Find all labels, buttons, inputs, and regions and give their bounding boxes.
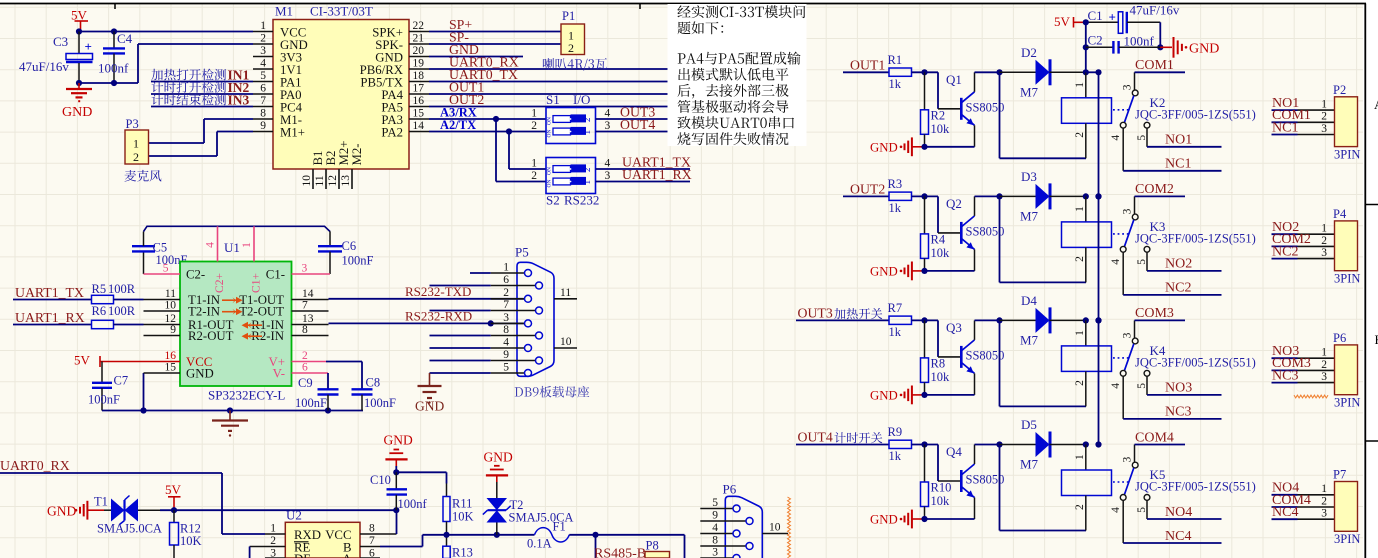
M1 pin 22 SPK+ [372, 20, 429, 40]
svg-text:11: 11 [560, 287, 571, 299]
svg-text:6: 6 [369, 547, 375, 558]
svg-text:1: 1 [531, 157, 537, 169]
svg-text:3: 3 [605, 120, 611, 132]
resistor R8 10k [921, 320, 951, 395]
svg-text:D2: D2 [1021, 45, 1037, 60]
ground earth (under U1) [212, 411, 248, 437]
svg-text:R9: R9 [888, 425, 903, 439]
wire relay coil return loop [1000, 72, 1087, 158]
svg-text:R2-OUT: R2-OUT [188, 329, 234, 343]
svg-text:3PIN: 3PIN [1334, 395, 1360, 409]
relay K5 switch [1110, 445, 1256, 513]
svg-text:C2: C2 [1088, 33, 1103, 48]
connector P1 speaker [561, 9, 585, 55]
M1 pin 21 SPK- [375, 32, 429, 52]
svg-text:2: 2 [1074, 256, 1086, 262]
svg-text:4: 4 [1110, 259, 1122, 265]
connector P8 [645, 539, 670, 558]
wire Q4 emitter to ground [925, 518, 975, 520]
net label OUT1 [843, 57, 889, 72]
wire P5 pin6 stub [430, 285, 491, 287]
net label A2/TX wire to S1/S2 [429, 118, 546, 169]
P5 pin 1 [491, 261, 532, 276]
svg-text:22: 22 [413, 20, 425, 32]
svg-text:47uF/16v: 47uF/16v [1130, 3, 1180, 18]
svg-text:2: 2 [582, 118, 592, 123]
svg-text:1: 1 [1321, 223, 1327, 235]
svg-text:V-: V- [273, 367, 285, 381]
svg-text:SP3232ECY-L: SP3232ECY-L [208, 388, 285, 403]
svg-text:+: + [85, 39, 92, 54]
svg-text:18: 18 [413, 70, 425, 82]
svg-text:M7: M7 [1020, 457, 1039, 472]
net label IN3 计时结束检测 [151, 93, 253, 108]
wire P5 pin9 stub [430, 360, 491, 362]
svg-text:3: 3 [1321, 508, 1327, 520]
wire Q3 collector node [975, 317, 1003, 323]
relay K2 switch [1110, 72, 1256, 140]
relay K4 switch [1110, 320, 1256, 388]
IC M1 CI-33T/03T voice module [273, 4, 409, 170]
transistor Q4 SS8050 [946, 444, 1004, 519]
svg-text:M7: M7 [1020, 332, 1039, 347]
net label NC3 (relay) [1123, 376, 1221, 420]
svg-text:RS485-B: RS485-B [594, 547, 646, 558]
svg-text:8: 8 [503, 324, 509, 336]
svg-text:U1: U1 [224, 240, 240, 255]
svg-text:1k: 1k [889, 325, 902, 339]
svg-text:1k: 1k [889, 77, 902, 91]
P6 pin 5 [700, 497, 740, 512]
svg-text:21: 21 [413, 32, 425, 44]
wire R1-IN to RS232-RXD [329, 308, 525, 326]
svg-text:4: 4 [605, 157, 611, 169]
ground GND (at R4) [870, 262, 928, 281]
svg-text:R3: R3 [888, 177, 903, 191]
svg-text:1: 1 [1321, 347, 1327, 359]
svg-text:4: 4 [712, 522, 718, 534]
net label NC1 wire to P2 pin 3 [1272, 120, 1335, 135]
svg-text:GND: GND [870, 388, 898, 402]
P5 pin 7 [491, 299, 543, 314]
U1 pin 3 C1- [266, 262, 330, 281]
resistor R3 1k [888, 177, 912, 215]
svg-text:M7: M7 [1020, 208, 1039, 223]
power port GND (above C10) [384, 433, 413, 467]
svg-text:P3: P3 [126, 117, 139, 131]
svg-text:6: 6 [260, 82, 266, 94]
svg-text:3: 3 [270, 547, 276, 558]
M1 pin 1 VCC [253, 20, 306, 40]
svg-text:GND: GND [186, 367, 214, 381]
svg-text:9: 9 [260, 120, 266, 132]
ground GND (at R2) [870, 137, 928, 156]
svg-text:C8: C8 [366, 376, 381, 390]
net label UART1_TX (S2 pin4) [596, 154, 691, 169]
wire U1 gnd rail [102, 373, 363, 414]
svg-text:DE: DE [294, 552, 311, 558]
P6 pin 4 [700, 522, 740, 537]
svg-text:5: 5 [1136, 507, 1148, 513]
wire 5V rail to M1 pin1 [76, 28, 253, 34]
M1 pin 20 GND [375, 45, 429, 65]
svg-text:R11: R11 [452, 497, 472, 511]
resistor R5 100R [92, 282, 144, 303]
svg-text:R10: R10 [931, 481, 952, 495]
P5 pin 8 [491, 324, 543, 339]
svg-text:2: 2 [270, 535, 276, 547]
svg-text:3: 3 [302, 262, 308, 274]
svg-text:5: 5 [163, 262, 169, 274]
U1 pin 8 R2-IN [251, 324, 328, 343]
svg-text:T1: T1 [94, 495, 108, 509]
U1 pin 14 T1-OUT [239, 288, 328, 307]
net label NC3 wire to P6 pin 3 [1272, 368, 1335, 383]
wire relay coil return loop [1000, 320, 1087, 406]
capacitor C5 100nF [132, 232, 188, 275]
svg-text:D4: D4 [1021, 293, 1037, 308]
wire P5 pin8 stub [430, 335, 491, 337]
wire Q1 collector node [975, 69, 1003, 75]
capacitor C1 47uF/16v [1086, 3, 1180, 34]
M1 pin 13 M2- [340, 143, 364, 189]
svg-text:7: 7 [503, 299, 509, 311]
svg-text:8: 8 [369, 522, 375, 534]
resistor R1 1k [888, 53, 912, 91]
capacitor C6 100nF [318, 231, 374, 274]
P5 pin 11 shield [554, 287, 577, 299]
M1 pin 17 PA4 [381, 82, 429, 102]
svg-text:Q1: Q1 [946, 72, 962, 87]
svg-text:C7: C7 [114, 374, 129, 388]
wire P5 pin1 stub [470, 272, 491, 274]
net label COM2 [1135, 182, 1186, 197]
svg-text:11: 11 [165, 288, 176, 300]
svg-text:17: 17 [413, 82, 425, 94]
net label NO3 (relay) [1147, 376, 1222, 396]
svg-text:8: 8 [302, 324, 308, 336]
svg-text:100nF: 100nF [342, 254, 374, 268]
svg-text:5V: 5V [74, 353, 91, 368]
svg-text:2: 2 [531, 120, 537, 132]
svg-text:2: 2 [1074, 132, 1086, 138]
svg-text:JQC-3FF/005-1ZS(551): JQC-3FF/005-1ZS(551) [1135, 480, 1256, 494]
svg-text:R2: R2 [931, 108, 946, 122]
wire gnd rail to M1 pin2 [76, 44, 253, 86]
svg-text:2: 2 [503, 287, 509, 299]
svg-text:JQC-3FF/005-1ZS(551): JQC-3FF/005-1ZS(551) [1135, 107, 1256, 121]
wire UART0_RX to U2 pin1 [222, 473, 265, 534]
svg-text:SS8050: SS8050 [966, 348, 1005, 362]
net label COM3 [1135, 306, 1186, 321]
svg-text:GND: GND [415, 399, 444, 414]
M1 pin 12 M2+ [327, 141, 351, 190]
svg-text:NO3: NO3 [1165, 381, 1192, 396]
capacitor C2 100nf [1086, 33, 1161, 54]
svg-text:4: 4 [205, 242, 217, 248]
capacitor C4 100nf [98, 31, 133, 83]
svg-text:2: 2 [1074, 380, 1086, 386]
relay K3 switch [1110, 196, 1256, 264]
svg-text:5V: 5V [1054, 14, 1071, 29]
svg-text:GND: GND [484, 450, 513, 465]
svg-text:10k: 10k [931, 122, 951, 136]
svg-text:10k: 10k [931, 370, 951, 384]
svg-text:16: 16 [165, 350, 177, 362]
svg-text:GND: GND [384, 433, 413, 448]
svg-text:5: 5 [1136, 383, 1148, 389]
M1 pin 18 PB5/TX [360, 70, 429, 90]
svg-text:C9: C9 [298, 376, 313, 390]
svg-text:1: 1 [531, 107, 537, 119]
capacitor C10 100nf [370, 472, 428, 511]
switch S2 RS232 [531, 157, 610, 207]
net label OUT2 [429, 92, 713, 107]
svg-text:UART1_RX: UART1_RX [15, 310, 85, 325]
svg-text:4: 4 [1110, 383, 1122, 389]
wire GND node to R11 [393, 466, 446, 484]
wire R9 to Q4 base [912, 441, 961, 481]
svg-text:3PIN: 3PIN [1334, 147, 1360, 161]
svg-text:P2: P2 [1333, 83, 1346, 97]
M1 pin 4 1V1 [253, 57, 302, 77]
svg-text:1: 1 [503, 261, 509, 273]
svg-text:5: 5 [1136, 135, 1148, 141]
svg-text:20: 20 [413, 45, 425, 57]
svg-text:9: 9 [503, 349, 509, 361]
M1 pin 2 GND [253, 32, 308, 52]
net label IN1 加热打开检测 [151, 68, 253, 83]
M1 pin 9 M1+ [253, 120, 305, 140]
svg-text:SS8050: SS8050 [966, 224, 1005, 238]
svg-text:1: 1 [133, 137, 139, 151]
transistor Q3 SS8050 [946, 320, 1004, 395]
connector P7 3PIN [1333, 468, 1360, 547]
svg-text:SS8050: SS8050 [966, 100, 1005, 114]
svg-text:B1: B1 [311, 151, 325, 166]
svg-text:GND: GND [47, 504, 76, 519]
svg-text:PA2: PA2 [381, 125, 403, 139]
svg-text:M1: M1 [275, 4, 293, 19]
svg-text:JQC-3FF/005-1ZS(551): JQC-3FF/005-1ZS(551) [1135, 355, 1256, 369]
svg-text:C3: C3 [53, 34, 68, 49]
svg-text:NC3: NC3 [1272, 368, 1298, 383]
svg-text:10k: 10k [931, 246, 951, 260]
wire relay coil return loop [1000, 445, 1087, 531]
power port 5V (top right) [1054, 14, 1086, 29]
net label COM1 wire to P2 pin 2 [1272, 108, 1335, 123]
M1 pin 19 PB6/RX [360, 57, 429, 77]
svg-text:NC4: NC4 [1165, 529, 1191, 544]
P6 pin 8 [700, 534, 753, 549]
ground GND (top right) [1160, 37, 1219, 58]
U1 pin 4 C2+ (top) [205, 226, 227, 293]
svg-text:OUT3: OUT3 [798, 305, 833, 320]
svg-text:T2-IN: T2-IN [188, 305, 220, 319]
capacitor C8 100nF [352, 376, 397, 411]
svg-text:5: 5 [503, 361, 509, 373]
net SP- wire to P1 [429, 30, 561, 45]
net label NC1 (relay) [1123, 128, 1221, 172]
diode D5 M7 [1000, 417, 1086, 472]
P5 pin 2 [491, 287, 532, 302]
capacitor C9 100nF [295, 376, 339, 411]
M1 pin 16 PA5 [381, 95, 429, 115]
relay K4 coil [1062, 317, 1131, 406]
connector P3 microphone [125, 117, 149, 164]
transistor Q2 SS8050 [946, 196, 1004, 271]
svg-text:2: 2 [1074, 504, 1086, 510]
net label NO2 (relay) [1147, 252, 1222, 272]
switch S1 I/O [531, 92, 610, 144]
svg-text:GND: GND [870, 264, 898, 278]
svg-text:2: 2 [531, 170, 537, 182]
net label NC2 (relay) [1123, 252, 1221, 296]
svg-text:9: 9 [170, 324, 176, 336]
svg-text:NC2: NC2 [1272, 244, 1298, 259]
relay K5 coil [1062, 441, 1131, 530]
P5 pin 4 [491, 336, 532, 351]
svg-text:S2: S2 [546, 193, 560, 208]
svg-text:2: 2 [568, 41, 574, 55]
wire Q3 emitter to ground [925, 394, 975, 396]
svg-text:2: 2 [1321, 235, 1327, 247]
label DB9板载母座 [515, 386, 590, 398]
svg-text:SS8050: SS8050 [966, 473, 1005, 487]
diode D3 M7 [1000, 169, 1086, 224]
M1 pin 6 PA0 [253, 82, 302, 102]
svg-text:UART1_RX: UART1_RX [622, 167, 692, 182]
net label COM2 wire to P4 pin 2 [1272, 232, 1335, 247]
svg-text:NC4: NC4 [1272, 505, 1298, 520]
svg-text:A2/TX: A2/TX [440, 118, 476, 132]
svg-text:NC1: NC1 [1165, 157, 1191, 172]
svg-text:3: 3 [1121, 457, 1133, 463]
svg-text:3: 3 [1321, 371, 1327, 383]
error marker (orange) under NC3 [1294, 395, 1328, 398]
wire relay coil return loop [1000, 196, 1087, 282]
net label NO2 wire to P4 pin 1 [1272, 220, 1335, 235]
svg-text:P4: P4 [1333, 207, 1347, 221]
connector P6 DB9 shell [723, 482, 763, 558]
ground GND (at T1) [47, 501, 104, 520]
svg-text:4: 4 [1110, 135, 1122, 141]
P6 pin 3 [700, 546, 740, 558]
svg-text:3: 3 [1121, 332, 1133, 338]
resistor R10 10k [921, 445, 952, 520]
relay K3 coil [1062, 193, 1131, 282]
svg-text:GND: GND [62, 105, 92, 120]
U1 pin 10 T2-IN [144, 299, 220, 318]
svg-text:11: 11 [314, 175, 326, 186]
net label UART1_RX (S2 pin3) [596, 167, 692, 182]
M1 pin 5 PA1 [253, 70, 302, 90]
svg-text:+: + [1109, 10, 1116, 25]
svg-text:1: 1 [1074, 82, 1086, 88]
svg-text:7: 7 [260, 95, 266, 107]
svg-text:NC3: NC3 [1165, 405, 1191, 420]
net label OUT1 [429, 80, 713, 95]
wire Q4 collector node [975, 441, 1003, 447]
svg-text:6: 6 [503, 274, 509, 286]
ground GND (DB9 P5) [415, 373, 444, 414]
connector P5 DB9 shell [515, 245, 554, 377]
resistor R13 (partially cut) [443, 535, 473, 558]
svg-text:R8: R8 [931, 356, 946, 370]
IC U2 RS485 transceiver [285, 508, 360, 558]
svg-text:100nF: 100nF [295, 396, 327, 410]
svg-text:1: 1 [1074, 330, 1086, 336]
svg-text:9: 9 [712, 509, 718, 521]
svg-text:R7: R7 [888, 301, 903, 315]
svg-text:D5: D5 [1021, 417, 1037, 432]
svg-text:GND: GND [870, 513, 898, 527]
wire M1 pin8 to P3 pin1 [149, 119, 254, 143]
wire P5 pin4 stub [430, 347, 491, 349]
svg-text:3: 3 [1321, 247, 1327, 259]
ground GND (at R10) [870, 510, 928, 529]
wire R7 to Q3 base [912, 317, 961, 357]
U1 pin 12 R1-OUT [144, 313, 234, 332]
svg-text:OUT4: OUT4 [620, 117, 655, 132]
svg-text:COM1: COM1 [1135, 58, 1174, 73]
net label NO4 wire to P7 pin 1 [1272, 481, 1335, 496]
svg-text:C2-: C2- [186, 268, 205, 282]
svg-text:4: 4 [605, 107, 611, 119]
M1 pin 3 3V3 [253, 45, 302, 65]
svg-text:NO1: NO1 [1165, 133, 1192, 148]
wire M1 pin9 to P3 pin2 [149, 132, 254, 157]
svg-text:M7: M7 [1020, 84, 1039, 99]
P5 pin 9 [491, 349, 543, 364]
net label COM4 [1135, 430, 1186, 445]
svg-text:19: 19 [413, 57, 425, 69]
power port 5V (at R12) [165, 482, 182, 510]
M1 pin 10 B1 [301, 151, 325, 189]
svg-text:10: 10 [165, 299, 177, 311]
net label A3/RX wire to S1/S2 [429, 105, 546, 181]
svg-text:5: 5 [1136, 259, 1148, 265]
wire U1 top rail (C5-pin4-pin1-C6) [144, 226, 331, 231]
svg-text:2: 2 [582, 168, 592, 173]
svg-text:SMAJ5.0CA: SMAJ5.0CA [97, 522, 162, 536]
U2 pin 3 DE [265, 547, 311, 558]
capacitor C7 100nF [88, 362, 128, 411]
wire 5V rail (relay bank) [1086, 72, 1102, 444]
P6 pin 10 shield [762, 522, 788, 534]
resistor R6 100R [92, 304, 144, 329]
annotation text block about CI-33T module [668, 4, 807, 146]
M1 pin 11 B2 [314, 151, 338, 189]
wire R1 to Q1 base [912, 69, 961, 109]
net label UART0_RX [429, 55, 713, 70]
svg-text:10K: 10K [180, 534, 202, 548]
svg-text:2: 2 [1321, 495, 1327, 507]
svg-text:2: 2 [1321, 111, 1327, 123]
svg-text:Q3: Q3 [946, 320, 962, 335]
svg-text:4: 4 [1110, 507, 1122, 513]
svg-text:3: 3 [260, 45, 266, 57]
svg-text:6: 6 [302, 361, 308, 373]
svg-text:3: 3 [1121, 84, 1133, 90]
U1 pin 6 V- [273, 361, 328, 389]
U1 pin 2 V+ [269, 350, 362, 389]
net label OUT4 [796, 430, 889, 445]
wire C1 to gnd node [1083, 19, 1164, 72]
svg-text:C10: C10 [370, 473, 391, 487]
wire F1 to P8 [569, 532, 684, 558]
svg-text:B: B [1375, 332, 1378, 347]
